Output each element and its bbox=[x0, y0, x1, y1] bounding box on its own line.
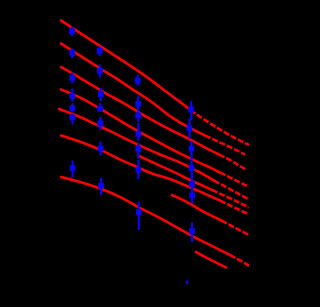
data point 13 error bar bbox=[99, 142, 101, 156]
curve c67 dashed tail bbox=[222, 221, 250, 236]
data point 14 error bar bbox=[100, 178, 102, 195]
data point 18 square marker bbox=[136, 131, 142, 137]
small marker fragment bottom bbox=[186, 281, 189, 285]
data point 14 square marker bbox=[98, 183, 104, 189]
curve c67 solid part bbox=[172, 195, 222, 221]
data point 22 square marker bbox=[188, 107, 194, 113]
data point 23 square marker bbox=[187, 126, 193, 132]
curve c4 solid part bbox=[61, 90, 220, 173]
curve c2 solid part bbox=[61, 44, 205, 136]
data point 20 error bar bbox=[137, 160, 139, 179]
data point 19 square marker bbox=[135, 146, 141, 152]
curve c6 dashed tail bbox=[220, 201, 248, 214]
data point 9 error bar bbox=[99, 65, 101, 78]
curve c6 solid part bbox=[61, 136, 220, 201]
curve c4 dashed tail bbox=[220, 173, 249, 188]
data point 22 error bar bbox=[190, 101, 192, 120]
data point 8 error bar bbox=[98, 47, 100, 57]
curve c5 solid part bbox=[59, 109, 214, 181]
data point 27 error bar bbox=[191, 185, 193, 204]
data point 15 error bar bbox=[137, 75, 139, 86]
data point 10 error bar bbox=[100, 88, 102, 101]
data point 3 error bar bbox=[71, 73, 73, 84]
data point 5 error bar bbox=[71, 103, 73, 111]
data point 9 square marker bbox=[97, 68, 103, 74]
data point 4 square marker bbox=[69, 93, 75, 99]
data point 1 error bar bbox=[71, 27, 73, 37]
data point 5 square marker bbox=[70, 105, 76, 111]
data point 28 square marker bbox=[189, 228, 195, 234]
data point 20 square marker bbox=[136, 167, 142, 173]
curve c5 dashed tail bbox=[214, 181, 249, 200]
curve c1 dashed tail bbox=[184, 105, 249, 145]
curve c55 dashed tail bbox=[212, 190, 249, 208]
curve c55 solid part bbox=[138, 156, 212, 191]
data point 1 square marker bbox=[69, 28, 75, 34]
data point 21 error bar bbox=[138, 202, 140, 231]
data point 4 error bar bbox=[71, 89, 73, 102]
data point 11 square marker bbox=[97, 106, 103, 112]
curve c8 bbox=[196, 252, 226, 268]
data point 16 error bar bbox=[137, 96, 139, 111]
data point 28 error bar bbox=[191, 223, 193, 243]
data point 17 square marker bbox=[135, 113, 141, 119]
data point 2 error bar bbox=[71, 49, 73, 59]
data point 26 square marker bbox=[189, 181, 195, 187]
data point 12 square marker bbox=[97, 121, 103, 127]
data point 11 error bar bbox=[99, 103, 101, 112]
data point 25 error bar bbox=[191, 158, 193, 179]
data point 10 square marker bbox=[98, 91, 104, 97]
data point 3 square marker bbox=[69, 75, 75, 81]
data point 24 error bar bbox=[190, 141, 192, 159]
curve c1 solid part bbox=[61, 21, 184, 106]
data point 8 square marker bbox=[97, 48, 103, 54]
curve c3 solid part bbox=[61, 67, 219, 155]
data point 26 error bar bbox=[191, 173, 193, 194]
data point 6 square marker bbox=[70, 115, 76, 121]
data point 12 error bar bbox=[99, 117, 101, 130]
curve c2 dashed tail bbox=[205, 136, 245, 155]
data point 19 error bar bbox=[137, 143, 139, 159]
data point 17 error bar bbox=[137, 110, 139, 122]
data point 25 square marker bbox=[189, 165, 195, 171]
data point 23 error bar bbox=[188, 119, 190, 139]
data point 15 square marker bbox=[135, 78, 141, 84]
curve c7 dashed tail bbox=[230, 255, 249, 266]
data point 27 square marker bbox=[189, 193, 195, 199]
data point 18 error bar bbox=[137, 123, 139, 141]
data point 7 error bar bbox=[71, 161, 73, 178]
curve c7 solid part bbox=[61, 177, 230, 255]
data point 21 square marker bbox=[136, 209, 142, 215]
data point 2 square marker bbox=[69, 50, 75, 56]
data point 13 square marker bbox=[98, 146, 104, 152]
data point 7 square marker bbox=[70, 165, 76, 171]
curve c3 dashed tail bbox=[219, 155, 247, 171]
data point 24 square marker bbox=[189, 146, 195, 152]
data point 6 error bar bbox=[71, 114, 73, 125]
data point 16 square marker bbox=[135, 101, 141, 107]
